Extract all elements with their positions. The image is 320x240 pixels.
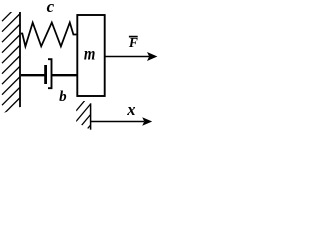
damper piston plate (44, 65, 47, 84)
svg-text:m: m (84, 44, 96, 64)
wall (left fixed support) (2, 3, 20, 126)
svg-text:b: b (59, 89, 67, 105)
mass m (block) (77, 15, 104, 96)
damper rod from wall (21, 74, 45, 76)
wall line (19, 12, 21, 107)
svg-text:F: F (128, 35, 138, 50)
wall hatching (2, 3, 20, 126)
x axis arrow (91, 117, 153, 125)
damper b (dashpot) (21, 59, 78, 88)
spring c (zigzag) (21, 23, 78, 47)
reference hatching (76, 94, 91, 143)
damper cylinder cup (48, 59, 52, 88)
force arrow F (106, 52, 158, 61)
svg-text:c: c (47, 0, 55, 16)
svg-text:x: x (126, 100, 135, 119)
small fixed reference for x axis (76, 94, 91, 143)
damper rod to mass (52, 74, 78, 76)
reference line (90, 103, 92, 129)
